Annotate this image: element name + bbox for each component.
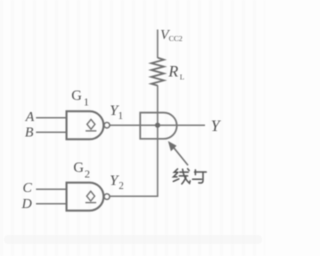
svg-text:D: D <box>21 197 32 212</box>
G1 open-collector diamond <box>86 119 97 130</box>
svg-text:C: C <box>23 181 33 196</box>
label 线与 (wired-AND text, hand-drawn glyphs) <box>173 169 206 184</box>
svg-text:B: B <box>25 126 34 141</box>
faint page show-through band at bottom <box>4 235 262 244</box>
wired-AND D-shape symbol <box>140 113 177 139</box>
svg-text:A: A <box>25 110 35 125</box>
junction dot (wired-AND node) <box>155 123 160 128</box>
G2 open-collector diamond <box>85 191 96 202</box>
wire A input <box>36 117 67 119</box>
wire VCC2 vertical (top to resistor) <box>157 30 159 59</box>
G1 output bubble <box>104 122 110 128</box>
wire B input <box>36 131 67 133</box>
线 glyph <box>173 169 190 184</box>
wire Y output <box>158 124 205 126</box>
NAND gate G2 body <box>67 183 104 211</box>
G2 output bubble <box>104 194 110 200</box>
wire C input <box>36 188 67 190</box>
wire Y1 (G1 output to wired-AND node) <box>110 124 158 126</box>
resistor RL zigzag <box>151 58 164 86</box>
与 glyph <box>193 170 207 183</box>
wire Y2 (G2 output to vertical riser) <box>110 195 158 197</box>
wire D input <box>36 203 67 205</box>
wire resistor bottom to Y2 corner (vertical through wired-AND node) <box>157 85 159 196</box>
arrow pointing to wired-AND node <box>168 141 188 165</box>
NAND gate G1 body <box>67 111 104 139</box>
